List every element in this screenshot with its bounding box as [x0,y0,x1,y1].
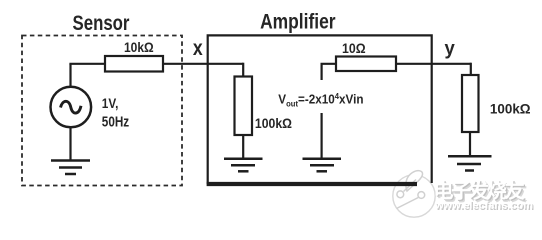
watermark text www.elecfans.com [434,200,534,213]
resistor R2 100k (amplifier input) [235,77,253,136]
label 1V, 50Hz [102,95,130,130]
wire: VCVS bottom lead to ground [321,113,323,160]
watermark logo circle (elecfans) [392,171,436,218]
wire: source bottom to ground [69,128,71,161]
svg-text:100kΩ: 100kΩ [490,101,531,116]
sensor enclosure (dashed box) [22,36,182,186]
watermark text dianzifashaoyou [434,178,528,205]
svg-text:Amplifier: Amplifier [260,11,336,34]
svg-text:Sensor: Sensor [73,12,130,35]
ground (load) [448,156,492,170]
ground (sensor) [51,161,90,175]
ground (amplifier input) [224,159,263,172]
wire: bend to resistor R1 left [69,63,105,65]
wire: R4 bottom to ground [469,132,471,157]
svg-text:x: x [193,37,203,61]
resistor R1 10k [105,56,163,72]
svg-text:y: y [444,38,455,60]
wire: source top to bend [69,64,71,86]
svg-text:100kΩ: 100kΩ [255,115,292,131]
resistor R4 100k (load) [462,75,479,132]
svg-text:50Hz: 50Hz [102,113,130,129]
wire: R1 right to amplifier input [163,63,243,65]
wire: bend down to R2 [242,63,244,77]
amplifier enclosure (solid box) [208,35,432,184]
wire: R3 right to output bend [396,63,471,65]
wire: bend down to R4 [470,63,472,75]
wire: VCVS top lead to R3 left [322,64,336,80]
svg-text:10Ω: 10Ω [342,40,366,56]
AC source V1 [51,87,92,128]
wire: R2 bottom to ground [242,135,244,160]
svg-text:www.elecfans.com: www.elecfans.com [434,200,533,212]
resistor R3 10 Ohm [336,57,396,72]
amplifier enclosure bottom edge (thick) [207,182,417,186]
svg-text:1V,: 1V, [102,95,119,111]
svg-text:10kΩ: 10kΩ [124,39,154,55]
ground (VCVS) [303,159,342,172]
